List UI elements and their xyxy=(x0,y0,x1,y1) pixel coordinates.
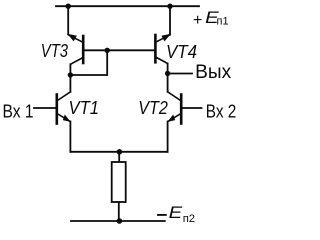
wire: VT2 emitter down xyxy=(167,122,169,152)
wire: VT1 emitter down xyxy=(69,122,71,152)
node: VT3 collector / VT1 collector junction dot xyxy=(68,72,73,77)
svg-text:VT4: VT4 xyxy=(166,42,197,62)
node: emitter join dot xyxy=(117,149,123,155)
wire: down to resistor xyxy=(118,152,120,162)
label -Ep2 negative supply E with subscript xyxy=(169,204,195,225)
svg-text:Вых: Вых xyxy=(195,62,231,83)
node: junction dot on negative rail xyxy=(117,218,123,224)
wire: input 2 to VT2 base xyxy=(182,107,202,109)
label -Ep2 negative supply minus sign xyxy=(158,214,166,216)
node: output junction dot xyxy=(165,71,170,76)
label +Ep1 positive supply xyxy=(193,9,229,29)
svg-text:Вх 1: Вх 1 xyxy=(3,101,34,121)
svg-text:VT2: VT2 xyxy=(138,98,168,118)
transistor VT3 emitter arrow xyxy=(68,34,76,41)
node: junction dot rail / VT3 emitter xyxy=(66,3,71,8)
wire: diode-connection from base junction down and left to VT3 collector node xyxy=(70,50,107,75)
transistor VT4 emitter arrow xyxy=(162,34,170,41)
transistor VT2 emitter with arrow xyxy=(168,114,181,122)
wire: VT2 collector up to output node xyxy=(167,74,169,92)
transistor VT3 base bar xyxy=(82,36,85,63)
wire: VT3 emitter to rail xyxy=(67,6,69,34)
svg-text:Вх 2: Вх 2 xyxy=(206,101,237,121)
wire: resistor to negative rail xyxy=(118,202,120,221)
transistor VT1 base bar xyxy=(55,95,58,124)
wire: input 1 to VT1 base xyxy=(34,107,56,109)
svg-text:+: + xyxy=(193,12,202,29)
svg-text:E: E xyxy=(169,204,184,222)
wire: VT4 emitter to rail xyxy=(169,6,171,34)
transistor VT3 collector xyxy=(70,58,83,65)
wire: common emitter join xyxy=(70,151,167,153)
transistor VT1 collector diagonal xyxy=(57,92,70,101)
wire: -E negative supply rail xyxy=(71,220,165,222)
transistor VT4 base bar xyxy=(154,35,157,62)
transistor VT2 base bar xyxy=(180,95,183,124)
wire: output stub to Vyx label xyxy=(168,73,192,75)
svg-text:п2: п2 xyxy=(183,213,195,225)
node: base wire junction dot xyxy=(105,48,110,53)
transistor VT4 collector xyxy=(156,57,168,64)
node: junction dot rail / VT4 emitter xyxy=(167,3,172,8)
transistor VT1 emitter with arrow xyxy=(57,114,70,122)
svg-text:п1: п1 xyxy=(217,16,229,28)
svg-text:VT3: VT3 xyxy=(41,41,68,61)
transistor VT2 collector diagonal xyxy=(168,92,181,101)
wire: +E positive supply rail xyxy=(56,5,199,7)
wire: common base wire VT3-VT4 xyxy=(83,49,155,51)
resistor R (tail resistor) xyxy=(112,162,126,202)
svg-text:VT1: VT1 xyxy=(69,98,100,118)
wire: VT1 collector up to node xyxy=(69,75,71,92)
